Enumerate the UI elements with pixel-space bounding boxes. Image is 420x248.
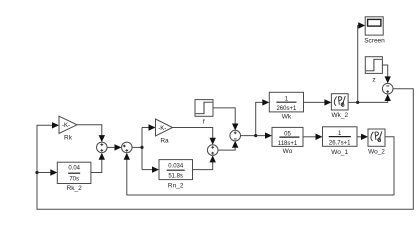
svg-text:Wo_2: Wo_2: [368, 149, 385, 156]
transfer fn Wo: [272, 127, 303, 155]
svg-text:51.8s: 51.8s: [168, 174, 183, 180]
wire S1 to S2: [107, 144, 121, 150]
wire Wk to Wk_2: [304, 99, 332, 105]
svg-text:Ra: Ra: [160, 138, 169, 145]
svg-text:-K-: -K-: [62, 123, 70, 129]
wire f to sum4: [213, 108, 238, 131]
transfer fn Wo_1: [323, 127, 358, 156]
wire S4 to Wo and up to Wk: [241, 99, 273, 139]
wire Wo to Wo_1: [303, 134, 323, 140]
svg-text:Screen: Screen: [364, 38, 385, 45]
wire z to sum5: [382, 65, 391, 83]
svg-text:26.7s+1: 26.7s+1: [329, 140, 351, 146]
svg-text:-K-: -K-: [158, 126, 166, 132]
sum S4: [230, 130, 241, 141]
node junction on left vertical: [35, 171, 38, 174]
wire Wk_2 to sum5 with scope branch: [348, 22, 391, 102]
sum S2: [122, 142, 133, 153]
gain Rk: [59, 116, 77, 141]
svg-text:z: z: [372, 77, 375, 84]
svg-text:f: f: [203, 119, 205, 126]
wire Rk_2 to sum1: [91, 153, 105, 173]
svg-text:0.04: 0.04: [68, 165, 80, 171]
svg-text:Wo: Wo: [283, 148, 293, 155]
wire branch to Rk_2: [37, 169, 57, 175]
svg-text:Wk: Wk: [282, 114, 292, 121]
step z: [365, 57, 382, 84]
wire S3 to S4: [218, 141, 238, 150]
scope Screen: [364, 17, 385, 45]
node junction at S2 output branch: [140, 146, 143, 149]
sum S5: [382, 83, 393, 94]
transfer fn Rk_2: [57, 162, 91, 192]
saturation Wo_2: [368, 129, 385, 156]
step f: [195, 100, 213, 126]
svg-text:0.034: 0.034: [168, 163, 184, 169]
sum S3: [207, 145, 218, 156]
svg-text:Rn_2: Rn_2: [168, 183, 184, 190]
transfer fn Wk: [269, 92, 303, 120]
wire outer feedback loop: [37, 89, 413, 210]
wire Wo_1 to Wo_2: [357, 134, 368, 140]
wire Rk to sum1: [77, 125, 105, 142]
wire Ra to sum3: [173, 128, 216, 145]
saturation Wk_2: [331, 94, 348, 119]
svg-text:70s: 70s: [69, 176, 79, 182]
svg-text:Rk_2: Rk_2: [67, 185, 83, 192]
svg-text:Rk: Rk: [64, 135, 73, 142]
wire Wo_2 inner feedback loop to S2: [124, 137, 394, 195]
gain Ra: [156, 119, 173, 145]
transfer fn Rn_2: [159, 160, 193, 190]
wire S2 out to branch point: [132, 124, 159, 173]
sum S1: [97, 142, 108, 153]
wire Rn_2 to sum3: [193, 155, 216, 169]
svg-text:260s+1: 260s+1: [276, 106, 297, 112]
svg-text:Wo_1: Wo_1: [331, 149, 348, 156]
svg-text:Wk_2: Wk_2: [331, 112, 348, 119]
node junction at S4 output branch: [254, 134, 257, 137]
node junction to scope branch: [356, 101, 359, 104]
svg-text:118s+1: 118s+1: [278, 141, 298, 147]
